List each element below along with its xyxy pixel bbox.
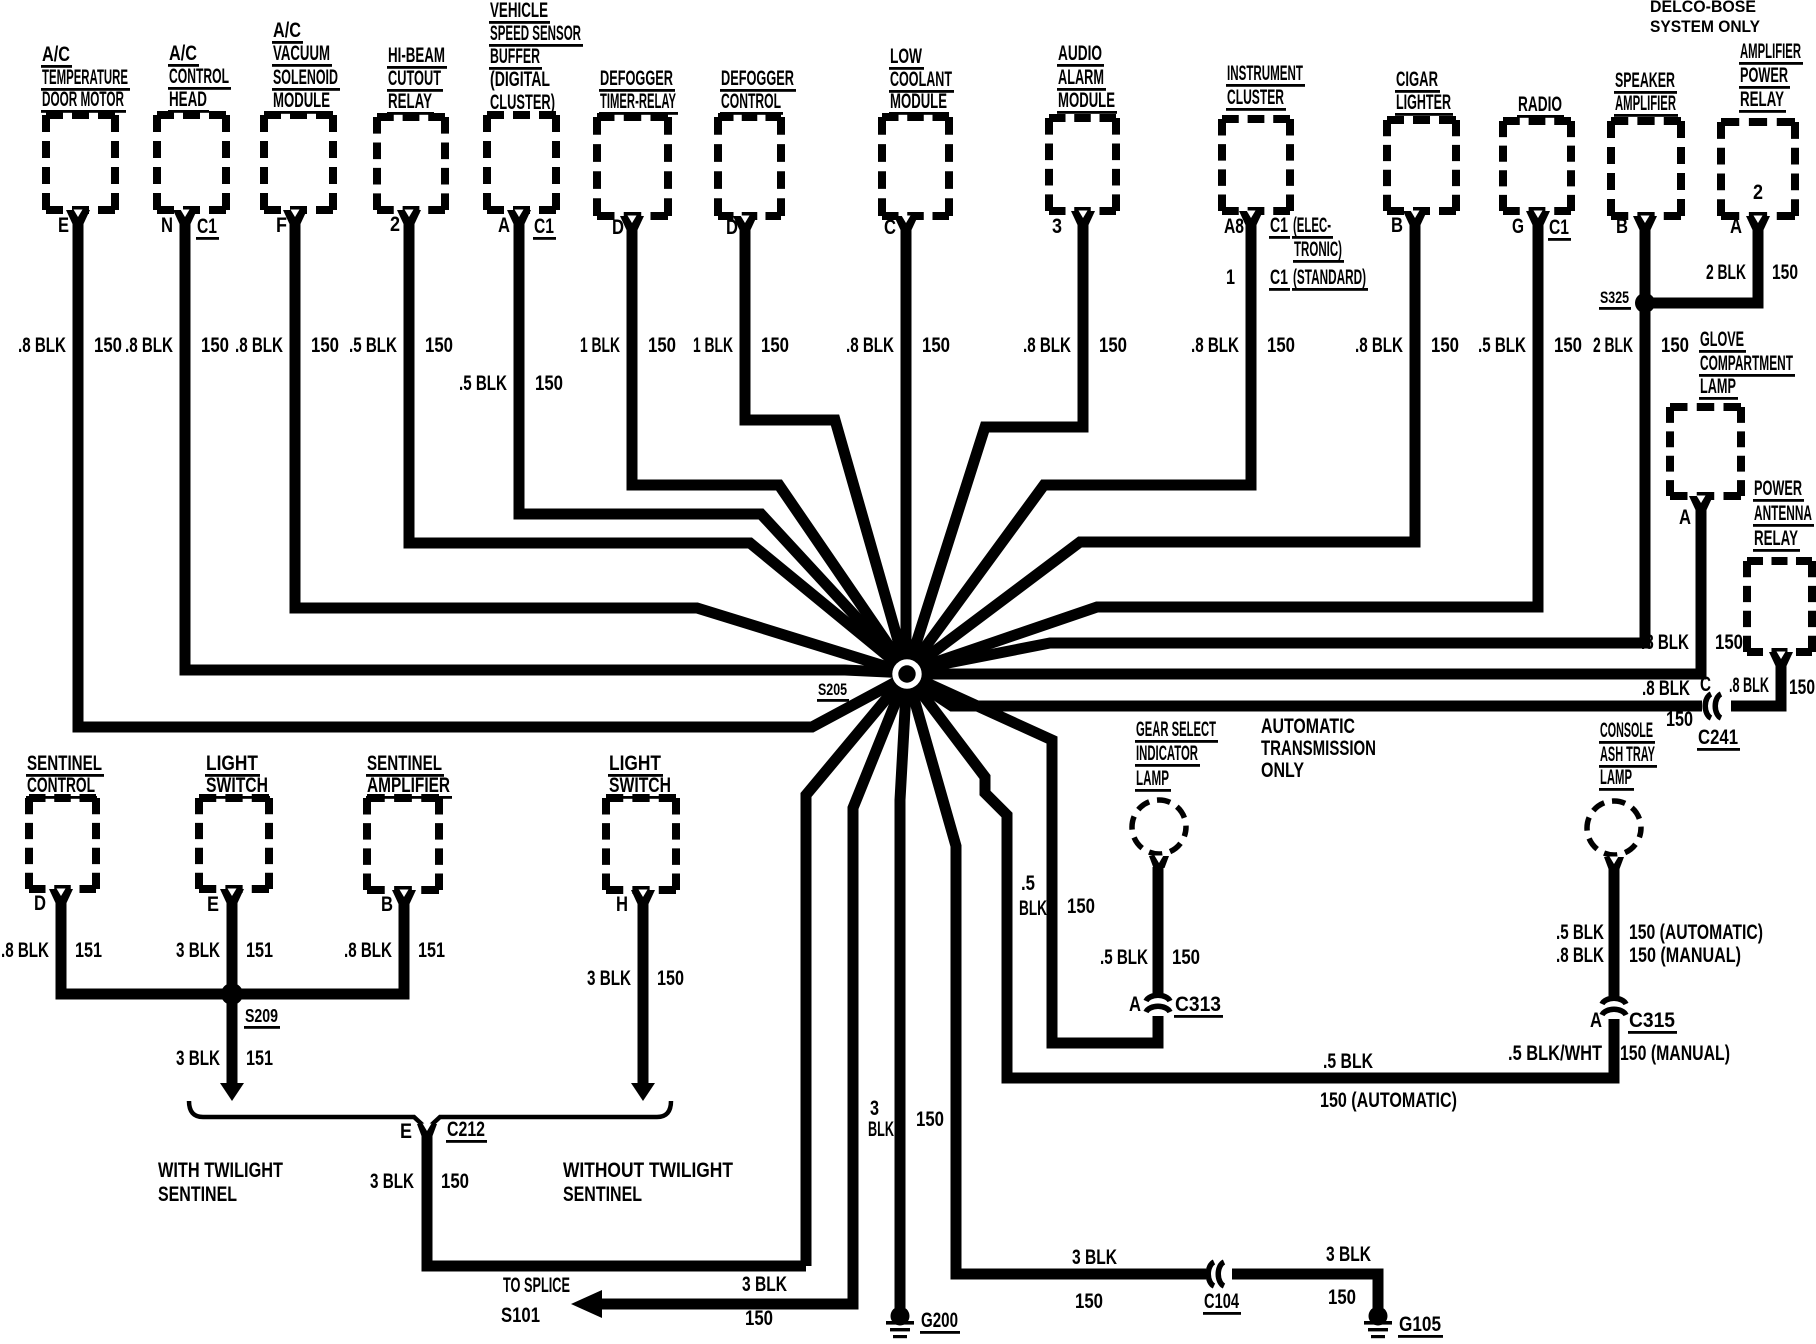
- wire .5 BLK 150 (AUTOMATIC) from splice S205 to connector C315: [907, 674, 1614, 1078]
- svg-text:(DIGITAL: (DIGITAL: [490, 68, 550, 91]
- svg-text:VEHICLE: VEHICLE: [490, 0, 548, 22]
- svg-text:150: 150: [922, 334, 950, 357]
- connector C241 in-line: [1705, 694, 1711, 718]
- svg-text:LIGHT: LIGHT: [609, 752, 661, 775]
- svg-text:C1: C1: [197, 215, 217, 238]
- splice S205 hub ring: [892, 659, 921, 688]
- svg-text:.5 BLK: .5 BLK: [1100, 946, 1148, 969]
- svg-text:WITHOUT TWILIGHT: WITHOUT TWILIGHT: [563, 1159, 733, 1182]
- svg-text:S205: S205: [818, 680, 847, 699]
- svg-text:B: B: [381, 893, 393, 916]
- svg-text:C1: C1: [534, 215, 554, 238]
- svg-text:151: 151: [75, 939, 102, 962]
- svg-text:RELAY: RELAY: [1740, 88, 1784, 111]
- svg-text:150: 150: [441, 1170, 469, 1193]
- svg-text:150: 150: [535, 372, 563, 395]
- svg-text:3 BLK: 3 BLK: [370, 1170, 414, 1193]
- svg-text:ANTENNA: ANTENNA: [1754, 502, 1812, 525]
- svg-text:A/C: A/C: [169, 42, 197, 65]
- svg-text:.8 BLK: .8 BLK: [344, 939, 392, 962]
- svg-text:A: A: [498, 214, 510, 237]
- svg-text:B: B: [1391, 214, 1403, 237]
- svg-text:150: 150: [916, 1108, 944, 1131]
- svg-text:BLK: BLK: [1019, 897, 1047, 920]
- svg-text:(ELEC-: (ELEC-: [1293, 214, 1331, 237]
- wire .5 BLK 150 from gear select indicator lamp to connector C313: [1153, 867, 1164, 996]
- connector C104 in-line: [1208, 1262, 1214, 1286]
- svg-text:150: 150: [94, 334, 122, 357]
- svg-text:D: D: [34, 892, 46, 915]
- svg-text:150: 150: [1067, 895, 1095, 918]
- wire 1 BLK 150 from defogger control to splice S205: [745, 227, 907, 672]
- svg-text:.5 BLK: .5 BLK: [1478, 334, 1526, 357]
- svg-text:A: A: [1590, 1009, 1602, 1032]
- svg-text:.8 BLK: .8 BLK: [18, 334, 66, 357]
- brace joining alternative circuits to connector C212: [189, 1101, 671, 1129]
- svg-text:TRANSMISSION: TRANSMISSION: [1261, 737, 1376, 760]
- svg-text:SOLENOID: SOLENOID: [273, 66, 338, 89]
- svg-text:.8 BLK: .8 BLK: [846, 334, 894, 357]
- svg-text:A: A: [1730, 215, 1742, 238]
- svg-text:150 (MANUAL): 150 (MANUAL): [1620, 1042, 1730, 1065]
- svg-text:150: 150: [311, 334, 339, 357]
- wire .8 BLK 151 from sentinel amplifier to splice S209 bus: [232, 901, 404, 994]
- svg-text:CONSOLE: CONSOLE: [1600, 719, 1653, 742]
- wire 1 BLK 150 from defogger timer-relay to splice S205: [632, 227, 907, 672]
- gear select indicator lamp bulb: [1132, 800, 1186, 854]
- svg-text:2: 2: [1753, 181, 1763, 204]
- svg-text:150: 150: [1666, 708, 1693, 731]
- svg-text:BUFFER: BUFFER: [490, 45, 540, 68]
- wire 3 BLK 150 from connector C212 to splice S205 branch: [427, 1135, 806, 1266]
- wire .8 BLK 150 from audio alarm module to splice S205: [907, 222, 1083, 672]
- svg-text:.5 BLK: .5 BLK: [349, 334, 397, 357]
- svg-text:2 BLK: 2 BLK: [1706, 261, 1746, 284]
- svg-text:INSTRUMENT: INSTRUMENT: [1227, 62, 1303, 85]
- svg-text:150: 150: [648, 334, 676, 357]
- svg-text:.8 BLK: .8 BLK: [125, 334, 173, 357]
- wire 3 BLK 151 from light switch pin E to splice S209: [227, 900, 238, 994]
- svg-text:150 (AUTOMATIC): 150 (AUTOMATIC): [1320, 1089, 1457, 1112]
- svg-text:HI-BEAM: HI-BEAM: [388, 44, 445, 67]
- svg-text:C104: C104: [1204, 1290, 1239, 1313]
- svg-text:150: 150: [1172, 946, 1200, 969]
- svg-text:.5 BLK/WHT: .5 BLK/WHT: [1508, 1042, 1602, 1065]
- svg-text:MODULE: MODULE: [890, 90, 947, 113]
- svg-text:.8 BLK: .8 BLK: [1641, 631, 1689, 654]
- svg-text:A/C: A/C: [42, 43, 70, 66]
- svg-text:SENTINEL: SENTINEL: [563, 1183, 642, 1206]
- svg-text:RELAY: RELAY: [388, 90, 432, 113]
- svg-text:CLUSTER: CLUSTER: [1227, 86, 1284, 109]
- svg-text:SPEED SENSOR: SPEED SENSOR: [490, 22, 581, 45]
- svg-text:RELAY: RELAY: [1754, 527, 1798, 550]
- wire 2 BLK 150 from speaker amplifier through splice S325 to splice S205: [907, 227, 1645, 671]
- svg-text:S325: S325: [1600, 288, 1629, 307]
- svg-text:AMPLIFIER: AMPLIFIER: [1740, 40, 1801, 63]
- svg-text:150 (AUTOMATIC): 150 (AUTOMATIC): [1629, 921, 1763, 944]
- svg-text:3 BLK: 3 BLK: [1072, 1246, 1117, 1269]
- wire 3 BLK 150 from splice S205 through connector C104 to ground G105: [907, 674, 1206, 1274]
- svg-text:DELCO-BOSE: DELCO-BOSE: [1650, 0, 1756, 16]
- svg-text:GEAR SELECT: GEAR SELECT: [1136, 718, 1216, 741]
- svg-text:SYSTEM ONLY: SYSTEM ONLY: [1650, 17, 1761, 36]
- wire .5 BLK 150 from hi-beam cutout relay to splice S205: [409, 221, 907, 672]
- svg-text:C1: C1: [1270, 214, 1288, 237]
- wire .8 BLK 150 from A/C control head to splice S205: [185, 221, 907, 673]
- svg-text:C315: C315: [1629, 1009, 1675, 1032]
- wire 3 BLK 151 from splice S209 down to C212 brace: [227, 994, 238, 1085]
- svg-text:150: 150: [1099, 334, 1127, 357]
- svg-text:.8 BLK: .8 BLK: [1191, 334, 1239, 357]
- svg-text:RADIO: RADIO: [1518, 93, 1562, 116]
- svg-text:HEAD: HEAD: [169, 88, 207, 111]
- svg-text:AUDIO: AUDIO: [1058, 42, 1102, 65]
- svg-text:.8 BLK: .8 BLK: [1729, 674, 1769, 697]
- svg-text:POWER: POWER: [1754, 477, 1802, 500]
- svg-text:3: 3: [1052, 215, 1062, 238]
- svg-text:.8 BLK: .8 BLK: [1, 939, 49, 962]
- svg-text:1: 1: [1226, 266, 1235, 289]
- svg-text:A8: A8: [1224, 215, 1244, 238]
- wire 3 BLK 150 from light switch pin H down to C212 brace: [638, 901, 649, 1085]
- ground G105: [1369, 1307, 1388, 1326]
- svg-text:C: C: [884, 216, 896, 239]
- svg-text:H: H: [616, 893, 628, 916]
- svg-text:(STANDARD): (STANDARD): [1293, 266, 1366, 289]
- svg-text:COMPARTMENT: COMPARTMENT: [1700, 352, 1793, 375]
- svg-text:A: A: [1129, 993, 1141, 1016]
- svg-text:LOW: LOW: [890, 45, 922, 68]
- svg-text:COOLANT: COOLANT: [890, 68, 952, 91]
- wire .8 BLK 150 from power antenna relay through connector C241 to splice S205: [1731, 663, 1781, 706]
- svg-text:150: 150: [1075, 1290, 1103, 1313]
- console ash tray lamp bulb: [1587, 801, 1641, 855]
- svg-text:G: G: [1512, 215, 1524, 238]
- svg-text:C1: C1: [1270, 266, 1288, 289]
- svg-text:E: E: [400, 1120, 412, 1143]
- wire .8 BLK 150 from instrument cluster to splice S205: [907, 222, 1251, 672]
- wire 2 BLK 150 from amplifier power relay pin A down to splice S325: [1645, 227, 1758, 303]
- svg-text:3 BLK: 3 BLK: [587, 967, 631, 990]
- svg-text:SENTINEL: SENTINEL: [367, 752, 442, 775]
- svg-text:E: E: [58, 214, 69, 237]
- svg-text:3 BLK: 3 BLK: [742, 1273, 787, 1296]
- svg-text:INDICATOR: INDICATOR: [1136, 742, 1198, 765]
- svg-text:SWITCH: SWITCH: [206, 774, 268, 797]
- svg-text:A: A: [1679, 506, 1691, 529]
- splice S209: [221, 983, 243, 1005]
- svg-text:AUTOMATIC: AUTOMATIC: [1261, 715, 1355, 738]
- svg-text:TIMER-RELAY: TIMER-RELAY: [600, 90, 676, 113]
- svg-text:TO SPLICE: TO SPLICE: [503, 1274, 570, 1297]
- svg-text:VACUUM: VACUUM: [273, 42, 330, 65]
- svg-text:MODULE: MODULE: [273, 89, 330, 112]
- svg-text:DEFOGGER: DEFOGGER: [600, 67, 673, 90]
- svg-text:GLOVE: GLOVE: [1700, 328, 1744, 351]
- svg-text:G105: G105: [1399, 1313, 1441, 1336]
- svg-text:POWER: POWER: [1740, 64, 1788, 87]
- svg-text:150: 150: [1772, 261, 1798, 284]
- wire 3 BLK 150 branch from splice S205 to splice S101 (arrow): [600, 674, 907, 1304]
- svg-text:150: 150: [1554, 334, 1582, 357]
- wire .5 BLK 150 from splice S205 to connector C313 (gear select indicator lamp): [907, 674, 1158, 1043]
- svg-text:AMPLIFIER: AMPLIFIER: [1615, 92, 1676, 115]
- connector C313 in-line: [1146, 995, 1170, 1001]
- svg-text:150: 150: [1431, 334, 1459, 357]
- svg-text:BLK: BLK: [868, 1118, 894, 1141]
- svg-text:G200: G200: [921, 1309, 958, 1332]
- svg-text:E: E: [207, 893, 219, 916]
- svg-text:CIGAR: CIGAR: [1396, 68, 1438, 91]
- ground G200: [891, 1307, 910, 1326]
- svg-text:C313: C313: [1175, 993, 1221, 1016]
- svg-text:3 BLK: 3 BLK: [176, 939, 220, 962]
- wire .8 BLK 151 from sentinel control to splice S209 bus: [61, 900, 232, 994]
- wire .8 BLK 150 from glove compartment lamp to splice S205: [907, 507, 1701, 674]
- svg-text:.5 BLK: .5 BLK: [1323, 1050, 1373, 1073]
- svg-text:A/C: A/C: [273, 19, 301, 42]
- svg-text:150 (MANUAL): 150 (MANUAL): [1629, 944, 1741, 967]
- svg-text:151: 151: [246, 1047, 273, 1070]
- svg-text:150: 150: [761, 334, 789, 357]
- wire .8 BLK 150 from A/C temperature door motor pin E to splice S205: [78, 221, 907, 727]
- svg-text:150: 150: [425, 334, 453, 357]
- wire .8 BLK 150 from A/C vacuum solenoid module to splice S205: [295, 221, 907, 673]
- svg-text:.8 BLK: .8 BLK: [1023, 334, 1071, 357]
- svg-text:N: N: [161, 214, 173, 237]
- wire .5 BLK 150 from radio to splice S205: [907, 222, 1538, 672]
- svg-text:CLUSTER): CLUSTER): [490, 91, 555, 114]
- svg-text:.8 BLK: .8 BLK: [1556, 944, 1604, 967]
- svg-text:2: 2: [390, 213, 400, 236]
- svg-text:150: 150: [201, 334, 229, 357]
- svg-text:1 BLK: 1 BLK: [580, 334, 620, 357]
- svg-text:ASH TRAY: ASH TRAY: [1600, 743, 1655, 766]
- svg-text:.8 BLK: .8 BLK: [1355, 334, 1403, 357]
- wire .5 BLK 150 from vehicle speed sensor buffer to splice S205: [519, 221, 907, 672]
- svg-text:150: 150: [1715, 631, 1743, 654]
- svg-text:TEMPERATURE: TEMPERATURE: [42, 66, 128, 89]
- svg-text:ALARM: ALARM: [1058, 66, 1104, 89]
- svg-text:3: 3: [870, 1097, 879, 1120]
- svg-text:ONLY: ONLY: [1261, 759, 1304, 782]
- svg-text:F: F: [276, 214, 287, 237]
- svg-text:B: B: [1616, 215, 1628, 238]
- svg-text:LIGHTER: LIGHTER: [1396, 91, 1451, 114]
- svg-text:TRONIC): TRONIC): [1294, 238, 1342, 261]
- svg-text:151: 151: [246, 939, 273, 962]
- svg-text:2 BLK: 2 BLK: [1593, 334, 1633, 357]
- wire 3 BLK 150 from splice S205 to ground G200: [900, 674, 907, 1308]
- svg-text:S209: S209: [245, 1006, 278, 1026]
- svg-text:.5 BLK: .5 BLK: [1556, 921, 1604, 944]
- svg-text:S101: S101: [501, 1304, 540, 1327]
- svg-text:LAMP: LAMP: [1600, 766, 1632, 789]
- svg-text:SWITCH: SWITCH: [609, 774, 671, 797]
- svg-text:3 BLK: 3 BLK: [176, 1047, 220, 1070]
- svg-text:C212: C212: [447, 1118, 485, 1141]
- splice S325 on speaker amplifier ground wire: [1635, 293, 1655, 313]
- svg-text:C241: C241: [1698, 726, 1738, 749]
- svg-text:.8 BLK: .8 BLK: [235, 334, 283, 357]
- svg-text:SENTINEL: SENTINEL: [27, 752, 102, 775]
- svg-text:150: 150: [745, 1307, 773, 1330]
- svg-text:C1: C1: [1549, 216, 1569, 239]
- wire 3 BLK 150 branch from splice S205 down to C212 junction: [806, 674, 907, 1266]
- svg-text:AMPLIFIER: AMPLIFIER: [367, 774, 450, 797]
- svg-text:DEFOGGER: DEFOGGER: [721, 67, 794, 90]
- svg-text:.5 BLK: .5 BLK: [459, 372, 507, 395]
- svg-text:151: 151: [418, 939, 445, 962]
- svg-text:MODULE: MODULE: [1058, 89, 1115, 112]
- svg-text:C: C: [1700, 673, 1711, 696]
- svg-text:150: 150: [1661, 334, 1689, 357]
- svg-text:CUTOUT: CUTOUT: [388, 67, 441, 90]
- wire .5 BLK / .8 BLK from console ash tray lamp to connector C315: [1609, 868, 1620, 999]
- svg-text:CONTROL: CONTROL: [27, 774, 95, 797]
- svg-text:LAMP: LAMP: [1136, 767, 1169, 790]
- svg-text:WITH TWILIGHT: WITH TWILIGHT: [158, 1159, 283, 1182]
- svg-text:LIGHT: LIGHT: [206, 752, 258, 775]
- svg-text:150: 150: [1267, 334, 1295, 357]
- svg-text:LAMP: LAMP: [1700, 375, 1736, 398]
- svg-text:CONTROL: CONTROL: [169, 65, 229, 88]
- svg-text:SPEAKER: SPEAKER: [1615, 69, 1675, 92]
- svg-text:CONTROL: CONTROL: [721, 90, 781, 113]
- svg-text:1 BLK: 1 BLK: [693, 334, 733, 357]
- wire .8 BLK 150 from cigar lighter to splice S205: [907, 222, 1415, 672]
- svg-text:3 BLK: 3 BLK: [1326, 1243, 1371, 1266]
- svg-text:150: 150: [657, 967, 684, 990]
- connector C315 in-line: [1602, 998, 1626, 1004]
- svg-text:.5: .5: [1021, 872, 1035, 895]
- wire .8 BLK 150 from low coolant module straight down to splice S205: [901, 227, 912, 674]
- svg-text:150: 150: [1789, 676, 1815, 699]
- svg-text:150: 150: [1328, 1286, 1356, 1309]
- svg-text:.8 BLK: .8 BLK: [1642, 677, 1690, 700]
- svg-text:SENTINEL: SENTINEL: [158, 1183, 237, 1206]
- svg-text:DOOR MOTOR: DOOR MOTOR: [42, 88, 124, 111]
